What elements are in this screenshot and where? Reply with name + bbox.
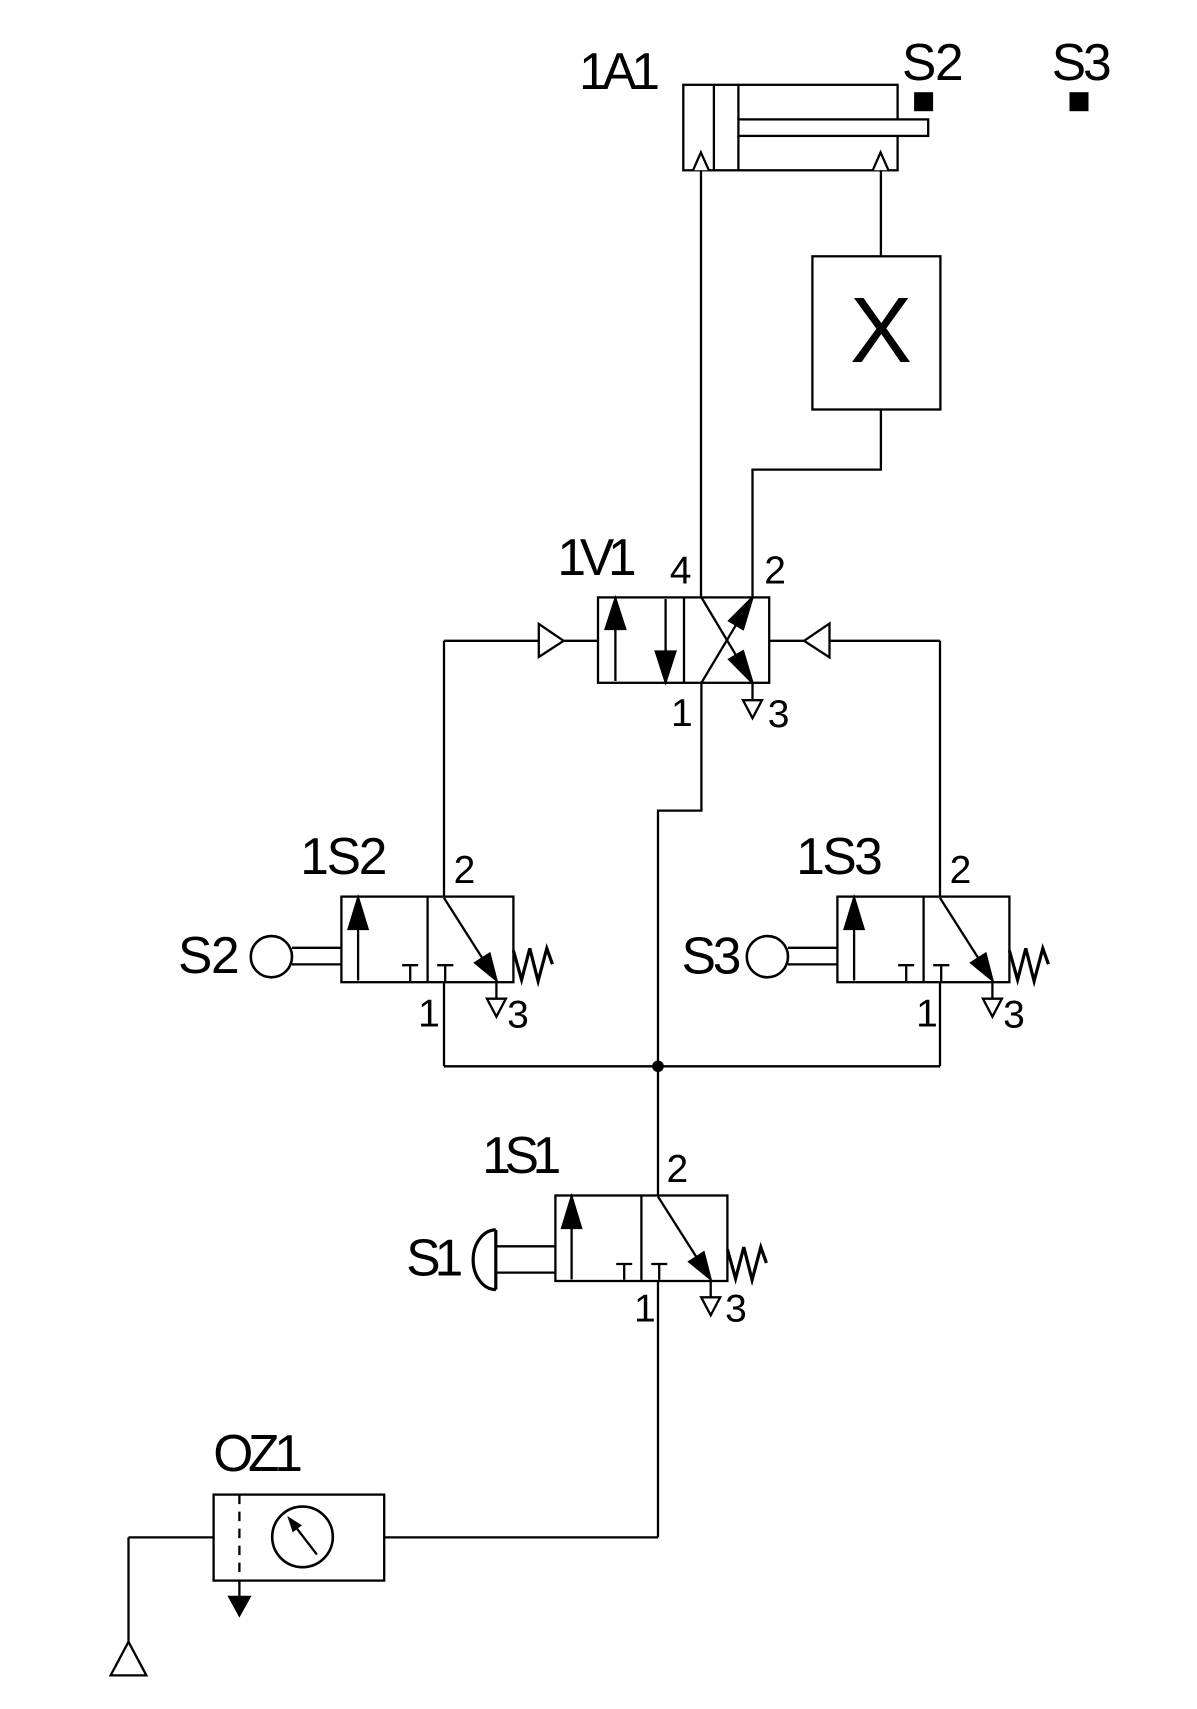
- svg-text:1V1: 1V1: [557, 528, 635, 586]
- svg-text:1S3: 1S3: [796, 827, 881, 885]
- svg-text:1: 1: [671, 692, 693, 735]
- svg-text:1: 1: [916, 993, 938, 1036]
- svg-text:X: X: [850, 278, 912, 382]
- svg-text:1: 1: [634, 1287, 656, 1330]
- svg-text:4: 4: [670, 549, 692, 592]
- svg-text:S1: S1: [406, 1229, 461, 1287]
- svg-text:S3: S3: [682, 926, 740, 984]
- svg-text:1S1: 1S1: [482, 1126, 559, 1184]
- svg-text:1: 1: [418, 993, 440, 1036]
- svg-text:S2: S2: [902, 33, 962, 91]
- svg-text:2: 2: [454, 849, 476, 892]
- svg-text:2: 2: [667, 1148, 689, 1191]
- svg-text:OZ1: OZ1: [213, 1424, 301, 1482]
- svg-text:2: 2: [764, 549, 786, 592]
- svg-text:3: 3: [1003, 994, 1025, 1037]
- svg-text:S3: S3: [1052, 33, 1110, 91]
- svg-text:1A1: 1A1: [579, 42, 658, 100]
- svg-text:3: 3: [725, 1287, 747, 1330]
- svg-text:S2: S2: [178, 926, 238, 984]
- svg-text:2: 2: [950, 849, 972, 892]
- svg-text:1S2: 1S2: [300, 827, 386, 885]
- svg-text:3: 3: [768, 693, 790, 736]
- svg-text:3: 3: [507, 994, 529, 1037]
